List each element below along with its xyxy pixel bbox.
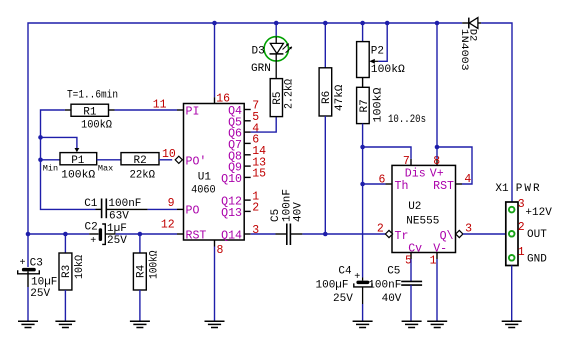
svg-text:+: + xyxy=(20,258,26,269)
node junction R3 top xyxy=(63,232,68,237)
wire Th junction down to C4 xyxy=(362,184,364,278)
wire P2 to R7 xyxy=(362,78,364,88)
pin Q14 xyxy=(221,224,259,242)
connector X1 PWR body xyxy=(495,183,541,266)
node junction P2 wiper rail xyxy=(385,21,390,26)
node junction D3 rail xyxy=(274,21,279,26)
svg-text:PO': PO' xyxy=(186,156,207,169)
svg-text:+12V: +12V xyxy=(525,207,552,219)
capacitor C5 100nF 40V shunt xyxy=(368,266,422,306)
node junction P2 rail xyxy=(360,21,365,26)
svg-text:C3: C3 xyxy=(30,258,43,270)
pin Q5 xyxy=(228,111,259,129)
pin Tr xyxy=(377,223,409,243)
svg-text:Min: Min xyxy=(43,163,58,173)
svg-text:R3: R3 xyxy=(61,265,73,278)
wire C4 to ground xyxy=(362,304,364,321)
ground X1 xyxy=(502,321,522,327)
svg-text:6: 6 xyxy=(379,173,386,186)
wire junction down to Th junction xyxy=(362,147,364,184)
wire C2 to R4 junction xyxy=(115,233,140,235)
pin PI xyxy=(153,99,200,119)
svg-text:R5: R5 xyxy=(272,91,284,104)
svg-text:D3: D3 xyxy=(252,46,265,58)
wire U1 pin16 to rail xyxy=(214,23,216,97)
svg-text:R4: R4 xyxy=(135,264,147,278)
svg-text:100nF: 100nF xyxy=(368,280,401,292)
resistor R4 100k xyxy=(133,250,160,290)
svg-text:4: 4 xyxy=(464,173,471,186)
svg-text:1: 1 xyxy=(518,246,525,259)
wire rail to R6 xyxy=(324,23,326,68)
svg-text:+: + xyxy=(90,236,96,247)
svg-text:OUT: OUT xyxy=(527,229,547,241)
potentiometer P1 100k xyxy=(41,148,122,181)
wire R6 to junction xyxy=(324,116,326,234)
ground C4 xyxy=(353,321,373,327)
svg-text:100µF: 100µF xyxy=(316,280,349,292)
label NE555 xyxy=(406,216,439,228)
svg-text:Q\: Q\ xyxy=(440,230,454,243)
svg-text:PI: PI xyxy=(186,106,200,119)
node junction R6 bottom xyxy=(323,232,328,237)
svg-text:R2: R2 xyxy=(134,155,147,167)
svg-text:1: 1 xyxy=(430,255,437,268)
potentiometer P2 100k xyxy=(357,23,406,78)
capacitor C5 100nF 40V series xyxy=(270,189,305,245)
resistor R2 22k xyxy=(121,153,172,182)
svg-text:4060: 4060 xyxy=(191,185,216,197)
pin RST xyxy=(161,219,207,243)
pin Q4 xyxy=(228,100,259,118)
pin Q6 xyxy=(228,122,259,140)
wire R4 to ground xyxy=(139,290,141,321)
ground V- xyxy=(427,321,447,327)
svg-text:NE555: NE555 xyxy=(406,216,439,228)
wire R1 left branch xyxy=(41,110,96,209)
wire R4 top xyxy=(139,234,141,253)
ground C5 xyxy=(402,321,422,327)
pin RST555 xyxy=(433,173,471,193)
svg-text:C5: C5 xyxy=(270,209,282,222)
svg-text:1µF: 1µF xyxy=(107,223,127,235)
wire junction to Dis pin xyxy=(363,147,411,159)
svg-text:C4: C4 xyxy=(338,266,352,278)
node junction P1 left xyxy=(38,158,43,163)
svg-text:Tr: Tr xyxy=(395,230,409,243)
wire rail to D3 xyxy=(275,23,277,37)
svg-text:100kΩ: 100kΩ xyxy=(372,87,384,122)
label pin number 10 xyxy=(162,148,176,161)
node junction left rail / RST row xyxy=(26,232,31,237)
svg-text:9: 9 xyxy=(168,197,175,210)
wire Cv to C5 xyxy=(410,259,412,281)
svg-text:RST: RST xyxy=(433,180,454,193)
svg-text:22kΩ: 22kΩ xyxy=(130,169,156,181)
svg-text:R7: R7 xyxy=(359,99,371,112)
op-amp U1 4060 body xyxy=(184,104,245,241)
wire Th junction to Th pin xyxy=(363,183,386,185)
pin PO' xyxy=(186,156,207,169)
pin X1-1 GND xyxy=(509,246,547,266)
resistor R1 100k xyxy=(65,104,115,131)
node junction V+ rail xyxy=(435,21,440,26)
pin Dis xyxy=(403,155,426,180)
svg-text:25V: 25V xyxy=(333,293,353,305)
svg-text:PO: PO xyxy=(186,205,200,218)
wire Q output to X1 pin2 xyxy=(463,233,506,235)
svg-text:40V: 40V xyxy=(292,202,304,222)
svg-text:47kΩ: 47kΩ xyxy=(334,84,346,111)
label U2 xyxy=(408,201,421,213)
node junction Th xyxy=(360,182,365,187)
pin 8 stub xyxy=(215,240,224,257)
pin Q9 xyxy=(228,156,266,174)
ground C3 xyxy=(18,321,38,327)
pin Q7 xyxy=(228,134,259,152)
wire V- to ground xyxy=(436,259,438,321)
svg-text:15: 15 xyxy=(252,168,266,181)
wire C3 to ground xyxy=(27,287,29,321)
svg-text:3: 3 xyxy=(252,224,259,237)
svg-text:U2: U2 xyxy=(408,201,421,213)
wire X1 GND pin to ground xyxy=(511,266,513,322)
pin V+ xyxy=(430,155,444,180)
svg-text:GND: GND xyxy=(527,254,547,266)
pin PO' open diamond xyxy=(175,156,182,163)
capacitor C4 100uF 25V xyxy=(316,266,373,306)
pin Th xyxy=(379,173,409,193)
pin Q13 xyxy=(221,202,259,220)
svg-text:X1: X1 xyxy=(495,183,509,195)
wire junction to U2 Tr pin xyxy=(325,233,385,235)
svg-text:25V: 25V xyxy=(107,235,127,247)
svg-text:C2: C2 xyxy=(85,222,98,234)
svg-text:Dis: Dis xyxy=(405,167,426,180)
svg-text:12: 12 xyxy=(161,219,175,232)
svg-text:T=1..6min: T=1..6min xyxy=(67,90,118,102)
wire C5 to ground xyxy=(410,285,412,321)
svg-text:1N4003: 1N4003 xyxy=(458,29,470,71)
svg-text:100kΩ: 100kΩ xyxy=(148,250,160,279)
svg-text:P2: P2 xyxy=(371,46,384,58)
pin X1-3 +12V xyxy=(509,198,552,219)
wire top rail from top-left corner to D2 anode xyxy=(28,23,462,234)
svg-text:RST: RST xyxy=(186,229,207,242)
label 4060 xyxy=(191,185,216,197)
svg-text:40V: 40V xyxy=(382,293,402,305)
node junction wiper branch xyxy=(38,135,43,140)
wire R4 junction to U1 RST pin xyxy=(140,233,177,235)
svg-text:100kΩ: 100kΩ xyxy=(61,169,95,181)
svg-text:100nF: 100nF xyxy=(108,198,141,210)
svg-text:10kΩ: 10kΩ xyxy=(74,255,86,279)
ground R4 xyxy=(130,321,150,327)
wire Q6 to R5 bottom xyxy=(251,117,277,133)
pin Q12 xyxy=(221,190,259,208)
svg-text:P1: P1 xyxy=(71,155,85,167)
resistor R7 100k xyxy=(357,87,385,124)
node junction V+/RST xyxy=(435,145,440,150)
svg-text:Th: Th xyxy=(395,180,409,193)
pin V- xyxy=(430,243,448,268)
LED D3 GRN xyxy=(251,37,292,79)
svg-text:8: 8 xyxy=(217,244,224,257)
ground U1 pin8 xyxy=(205,321,225,327)
node junction R7 / Dis xyxy=(360,145,365,150)
wire R1 to U1 PI pin xyxy=(115,109,178,111)
wire RST row y=234 from left rail to C2 xyxy=(28,233,89,235)
wire rail to P2 xyxy=(362,23,364,42)
svg-text:10..20s: 10..20s xyxy=(388,114,426,126)
svg-text:7: 7 xyxy=(403,155,410,168)
svg-text:Q10: Q10 xyxy=(221,173,242,186)
svg-text:10: 10 xyxy=(162,148,176,161)
node junction R4 top xyxy=(138,232,143,237)
wire Q14 to C5 xyxy=(251,233,276,235)
svg-text:10µF: 10µF xyxy=(31,277,57,289)
svg-text:R6: R6 xyxy=(321,91,333,104)
svg-text:2: 2 xyxy=(377,223,384,236)
node junction R6 rail xyxy=(323,21,328,26)
node junction pin16 rail xyxy=(212,21,217,26)
svg-text:GRN: GRN xyxy=(251,63,271,75)
svg-text:2: 2 xyxy=(518,221,525,234)
pin Q10 xyxy=(221,168,266,186)
wire V+ to rail xyxy=(436,23,438,159)
wire R3 top xyxy=(64,234,66,253)
wire left rail to C3 xyxy=(27,234,29,267)
label 10..20s xyxy=(388,114,426,126)
pin Cv xyxy=(405,243,422,268)
svg-text:U1: U1 xyxy=(198,172,212,184)
svg-text:Max: Max xyxy=(98,163,113,173)
capacitor C3 10uF 25V xyxy=(18,258,58,301)
wire from D2 cathode to X1 pin3 xyxy=(481,23,512,202)
resistor R3 10k xyxy=(59,253,86,290)
wire U1 pin8 to ground xyxy=(214,247,216,322)
ground R3 xyxy=(55,321,75,327)
resistor R5 2.2k xyxy=(270,79,295,117)
svg-text:2.2kΩ: 2.2kΩ xyxy=(283,79,295,109)
wire R7 to Dis junction xyxy=(362,124,364,147)
capacitor C2 1uF 25V xyxy=(85,222,128,248)
pin PO xyxy=(168,197,200,218)
svg-text:R1: R1 xyxy=(83,107,97,119)
svg-text:3: 3 xyxy=(518,198,525,211)
capacitor C1 100nF 63V xyxy=(84,198,148,222)
pin Q out xyxy=(440,223,473,243)
svg-text:Q14: Q14 xyxy=(221,230,242,243)
pin Q8 xyxy=(228,145,266,163)
svg-text:V+: V+ xyxy=(430,167,444,180)
svg-text:C5: C5 xyxy=(387,266,400,278)
wire C5 to R6 junction xyxy=(302,233,325,235)
svg-text:+: + xyxy=(354,272,360,283)
svg-text:16: 16 xyxy=(216,92,230,105)
wire V+ junction to RST pin xyxy=(437,147,472,184)
wire R3 to ground xyxy=(64,290,66,321)
svg-text:2: 2 xyxy=(252,202,259,215)
svg-text:100kΩ: 100kΩ xyxy=(371,64,405,76)
op-amp U2 NE555 body xyxy=(392,165,456,252)
resistor R6 47k xyxy=(319,68,346,116)
svg-text:PWR: PWR xyxy=(516,183,542,195)
label U1 xyxy=(198,172,212,184)
wire P1 wiper xyxy=(41,137,77,148)
svg-text:Q13: Q13 xyxy=(221,207,242,220)
svg-text:C1: C1 xyxy=(84,198,98,210)
svg-text:11: 11 xyxy=(153,99,167,112)
wire C1 to U1 PO pin xyxy=(148,208,177,210)
diode D2 1N4003 xyxy=(458,18,481,71)
pin X1-2 OUT xyxy=(509,221,547,241)
pin 16 stub xyxy=(215,92,231,105)
label T=1..6min xyxy=(67,90,118,102)
svg-text:63V: 63V xyxy=(109,210,129,222)
svg-text:25V: 25V xyxy=(30,288,50,300)
svg-text:100kΩ: 100kΩ xyxy=(81,120,112,132)
